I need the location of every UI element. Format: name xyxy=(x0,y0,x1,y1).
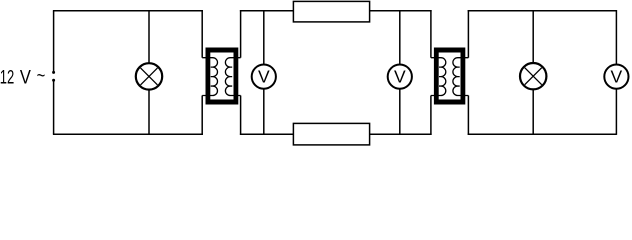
wire: lamp L2 branch xyxy=(532,11,534,135)
lamp L2 xyxy=(520,63,546,89)
wire: transformer T1 secondary top lead xyxy=(240,10,242,58)
wire: transformer T2 secondary top lead xyxy=(467,10,469,58)
resistor: line resistance box (bottom) xyxy=(293,123,369,144)
transformer T1 primary winding xyxy=(202,58,217,96)
wire: left loop left edge lower segment xyxy=(53,80,55,134)
transformer T1 secondary winding xyxy=(225,58,240,96)
svg-text:V: V xyxy=(611,66,623,86)
transformer T2 primary winding xyxy=(431,58,446,96)
wire: left loop bottom rail xyxy=(53,133,203,135)
svg-text:V: V xyxy=(258,66,270,86)
svg-text:V: V xyxy=(394,66,406,86)
wire: right loop top rail xyxy=(468,10,617,12)
wire: transformer T2 primary top lead xyxy=(430,10,432,58)
wire: transformer T1 primary top lead xyxy=(201,10,203,58)
svg-text:V: V xyxy=(20,68,31,89)
wire: left loop top rail xyxy=(53,10,203,12)
wire: lamp L1 branch xyxy=(148,11,150,135)
wire: voltmeter V2 branch xyxy=(399,11,401,135)
transformer T2 secondary winding xyxy=(453,58,469,96)
resistor: line resistance box (top) xyxy=(293,1,369,22)
svg-text:12: 12 xyxy=(0,68,14,89)
label: 12 V ~ (AC source value) xyxy=(0,66,45,89)
wire: right loop right edge (voltmeter V3 branch) xyxy=(615,10,617,135)
transformer T1 core xyxy=(206,48,239,105)
lamp L1 xyxy=(136,63,162,89)
wire: transformer T1 secondary bottom lead xyxy=(240,96,242,135)
wire: transformer T2 secondary bottom lead xyxy=(467,96,469,135)
wire: middle loop top rail xyxy=(240,10,432,12)
AC source terminal top dot xyxy=(52,71,55,74)
svg-text:~: ~ xyxy=(37,66,46,87)
voltmeter V1 xyxy=(252,65,276,89)
wire: voltmeter V1 branch xyxy=(263,11,265,135)
AC source terminal bottom dot xyxy=(52,79,55,82)
voltmeter V3 xyxy=(604,65,628,89)
wire: transformer T1 primary bottom lead xyxy=(201,96,203,135)
wire: right loop bottom rail xyxy=(468,133,617,135)
wire: left loop left edge upper segment xyxy=(53,11,55,72)
voltmeter V2 xyxy=(388,65,412,89)
wire: middle loop bottom rail xyxy=(240,133,432,135)
transformer T2 core xyxy=(434,48,465,105)
wire: transformer T2 primary bottom lead xyxy=(430,96,432,135)
